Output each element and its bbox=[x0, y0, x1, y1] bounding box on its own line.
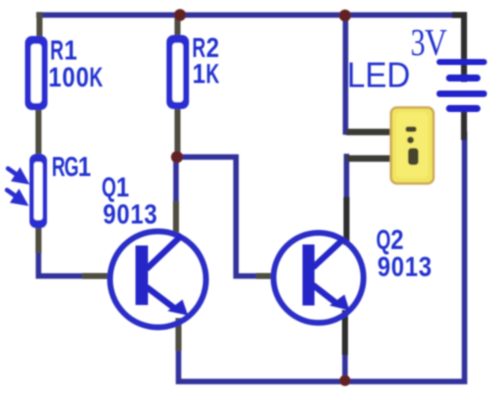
svg-text:0: 0 bbox=[62, 63, 75, 93]
svg-text:9: 9 bbox=[103, 200, 116, 230]
svg-text:3: 3 bbox=[419, 252, 432, 282]
svg-text:G: G bbox=[64, 151, 79, 181]
svg-text:0: 0 bbox=[391, 252, 404, 282]
svg-text:Q: Q bbox=[376, 224, 391, 254]
svg-text:K: K bbox=[89, 62, 103, 92]
svg-text:LED: LED bbox=[347, 56, 410, 95]
svg-text:2: 2 bbox=[391, 225, 404, 255]
svg-text:3: 3 bbox=[410, 23, 425, 64]
svg-text:1: 1 bbox=[48, 63, 61, 93]
svg-text:0: 0 bbox=[117, 200, 130, 230]
svg-text:1: 1 bbox=[116, 173, 129, 203]
svg-text:3: 3 bbox=[144, 200, 157, 230]
svg-text:V: V bbox=[425, 21, 448, 64]
svg-text:1: 1 bbox=[130, 200, 143, 230]
svg-text:R: R bbox=[52, 151, 66, 181]
svg-text:K: K bbox=[206, 58, 220, 88]
svg-text:9: 9 bbox=[377, 252, 390, 282]
svg-text:1: 1 bbox=[405, 252, 418, 282]
svg-text:1: 1 bbox=[64, 36, 77, 66]
svg-text:R: R bbox=[50, 35, 64, 65]
svg-text:1: 1 bbox=[192, 59, 205, 89]
svg-text:Q: Q bbox=[102, 172, 117, 202]
svg-text:1: 1 bbox=[78, 152, 91, 182]
svg-text:0: 0 bbox=[76, 63, 89, 93]
svg-text:R: R bbox=[192, 32, 206, 62]
